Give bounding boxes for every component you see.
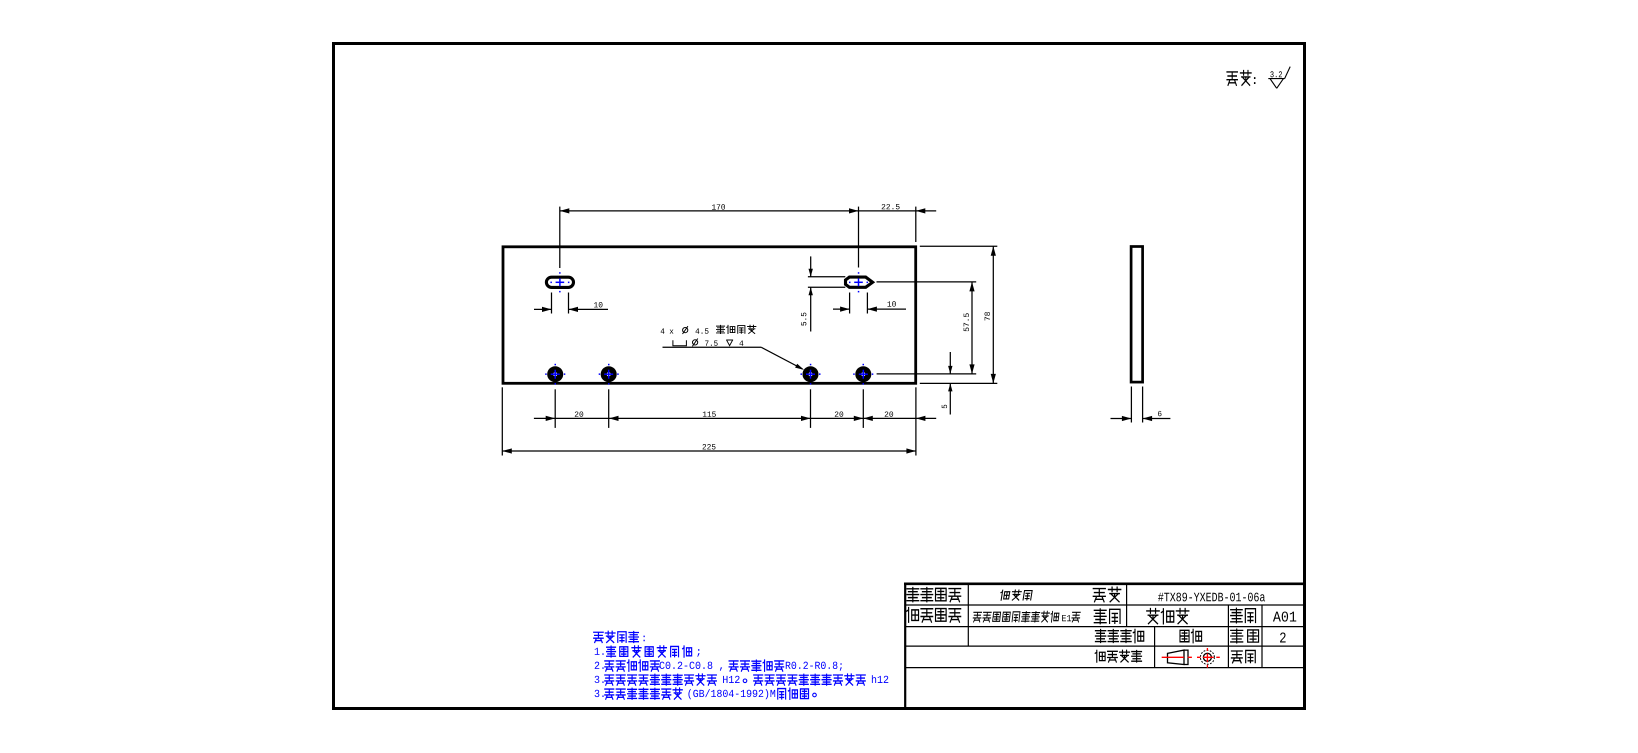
surface finish note	[1227, 72, 1237, 85]
value surface-treatment	[1180, 630, 1189, 641]
label part-name	[907, 588, 919, 602]
center mark hole 4	[859, 373, 868, 375]
value version A01	[1273, 612, 1281, 622]
dimension 5.5	[808, 276, 845, 278]
counterbore hole 3	[803, 366, 819, 382]
counterbore hole 4	[855, 366, 871, 382]
center mark hole 2	[604, 373, 613, 375]
border frame	[334, 44, 1305, 709]
value drawing-no	[1158, 593, 1163, 602]
dimension 225	[502, 450, 916, 452]
value machine-name	[973, 612, 982, 622]
dimension 6	[1130, 387, 1132, 423]
tech notes title	[594, 632, 603, 642]
value material	[1147, 609, 1159, 624]
leader line to hole 3	[663, 346, 762, 348]
dimension chain 20/115/20/20	[534, 417, 936, 419]
title block borders	[904, 582, 1305, 585]
right extension lines	[920, 245, 998, 247]
label drawing-no	[1093, 589, 1105, 602]
note line 2	[595, 662, 600, 669]
dimension 10 (left slot)	[551, 293, 553, 314]
label machine-name	[907, 608, 919, 623]
label quantity	[1231, 629, 1243, 643]
view mark circle symbol	[1200, 650, 1214, 664]
note line 4	[595, 690, 600, 697]
label view-mark	[1095, 650, 1105, 662]
center mark hole 1	[551, 373, 560, 375]
bottom extension lines	[554, 389, 556, 428]
note line 3	[595, 676, 600, 683]
note line2 counterbore	[673, 340, 687, 346]
note 4x holes line1	[661, 328, 665, 333]
slot hole right (pointed)	[846, 277, 873, 287]
view mark red crosshair	[1197, 656, 1220, 658]
center mark slot right	[854, 281, 863, 283]
counterbore hole 2	[601, 366, 617, 382]
slot hole left (stadium)	[546, 277, 573, 287]
value quantity 2	[1280, 632, 1286, 642]
label scale	[1231, 651, 1242, 663]
dimension 78	[992, 246, 994, 383]
extension lines top dims	[559, 207, 561, 268]
value part-name	[1000, 590, 1010, 600]
counterbore hole 1	[547, 366, 563, 382]
dimension 5	[949, 352, 951, 374]
label surface-treatment	[1095, 630, 1105, 643]
label material	[1094, 609, 1106, 624]
dimension 57.5	[971, 282, 973, 374]
side view plate	[1131, 247, 1143, 383]
center mark slot left	[556, 281, 565, 283]
view mark cone symbol	[1168, 650, 1189, 664]
label version	[1231, 608, 1243, 622]
title block verticals	[967, 584, 969, 646]
dimension 170	[560, 210, 859, 212]
dimension 22.5	[859, 210, 937, 212]
dimension 10 (right slot)	[849, 293, 851, 314]
note line 1	[595, 648, 600, 655]
view mark red centerline	[1162, 656, 1193, 658]
plate outline (front view)	[503, 247, 916, 383]
surface finish symbol	[1268, 67, 1290, 89]
center mark hole 3	[806, 373, 815, 375]
